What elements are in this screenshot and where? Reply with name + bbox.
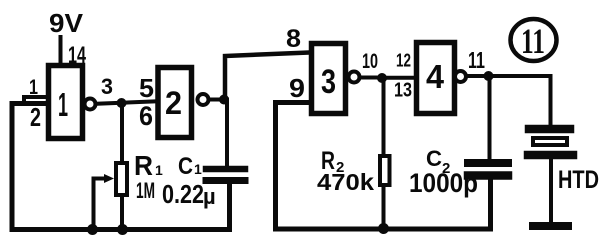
capacitor C2 top plate — [468, 159, 508, 167]
wire gate4 output right and down to HTD — [466, 76, 551, 125]
junction dot R2-rail — [378, 223, 389, 234]
R1 wiper arrow wire — [94, 177, 107, 181]
svg-text:9V: 9V — [49, 8, 84, 38]
svg-text:C: C — [178, 153, 193, 180]
output bubble gate U4 — [455, 71, 466, 82]
svg-text:1: 1 — [155, 162, 163, 178]
pin 1 stub wire — [24, 97, 47, 103]
output bubble gate U2 — [198, 94, 209, 105]
svg-text:HTD: HTD — [558, 166, 599, 194]
svg-text:10: 10 — [362, 50, 378, 73]
capacitor C1 bottom plate — [206, 177, 245, 184]
svg-text:1: 1 — [58, 86, 68, 123]
node B junction dot — [219, 95, 229, 105]
gate U1 box — [49, 66, 83, 139]
wire R2 bottom to rail — [382, 187, 386, 228]
gate U4 box — [417, 43, 455, 114]
svg-text:0.22: 0.22 — [162, 179, 204, 209]
wire HTD lower lead — [549, 159, 553, 222]
node A junction dot — [117, 98, 127, 108]
wire 9V supply to pin 14 — [59, 37, 63, 64]
resistor R1 preset box — [116, 163, 127, 195]
svg-text:R: R — [134, 150, 153, 181]
svg-text:2: 2 — [165, 85, 182, 121]
wire node A down to R1 — [120, 103, 124, 162]
wire R1 bottom to rail — [120, 197, 124, 229]
svg-text:2: 2 — [30, 102, 41, 132]
capacitor C2 bottom plate — [468, 171, 508, 180]
transducer HTD bottom plate — [528, 151, 573, 160]
svg-text:13: 13 — [394, 80, 412, 102]
capacitor C1 top plate — [206, 166, 245, 173]
node C junction dot — [377, 73, 387, 83]
svg-text:1000p: 1000p — [409, 168, 478, 198]
svg-text:3: 3 — [321, 63, 336, 101]
svg-text:12: 12 — [396, 51, 411, 71]
R1 wiper arrowhead — [104, 174, 114, 183]
svg-text:9: 9 — [289, 73, 305, 103]
svg-text:1M: 1M — [136, 178, 155, 203]
wire gate1 output to gate2 input — [96, 101, 156, 104]
svg-text:6: 6 — [139, 101, 153, 131]
junction dot wiper-rail — [87, 224, 98, 235]
svg-text:4: 4 — [426, 58, 445, 95]
wire wiper down to rail — [92, 179, 96, 230]
gate U3 box — [312, 44, 346, 114]
svg-text:µ: µ — [203, 184, 216, 209]
junction dot R1-rail — [117, 224, 128, 235]
transducer HTD top plate — [529, 125, 570, 134]
output bubble gate U3 — [349, 72, 360, 83]
transducer HTD body box — [533, 138, 567, 145]
wire node C to gate4 input — [382, 76, 415, 80]
resistor R2 box — [380, 156, 390, 185]
wire gate2 output to node B — [209, 98, 223, 102]
svg-text:8: 8 — [286, 25, 301, 53]
gate U2 box — [158, 68, 192, 138]
wire feedback left rail (pin2 left, down, along bottom to C1 bottom) — [12, 104, 230, 230]
svg-text:3: 3 — [101, 74, 113, 99]
wire node B up and right to gate3 pin 8 — [225, 53, 310, 100]
svg-text:11: 11 — [521, 21, 545, 61]
wire pin 9 left, down and right rail to C2 bottom — [276, 103, 491, 230]
wire gate3 output to node C — [360, 76, 380, 80]
HTD bottom terminal bar — [533, 222, 568, 230]
svg-text:470k: 470k — [317, 169, 374, 195]
output bubble gate U1 — [85, 99, 96, 110]
wire node B down to C1 top — [225, 100, 229, 168]
circled figure number 11 — [511, 19, 557, 61]
node D junction dot — [484, 71, 494, 81]
svg-text:11: 11 — [468, 47, 485, 73]
svg-text:1: 1 — [194, 161, 202, 177]
wire node C down to R2 — [382, 78, 386, 155]
svg-text:5: 5 — [139, 73, 154, 103]
wire node D down to C2 top — [488, 76, 492, 160]
